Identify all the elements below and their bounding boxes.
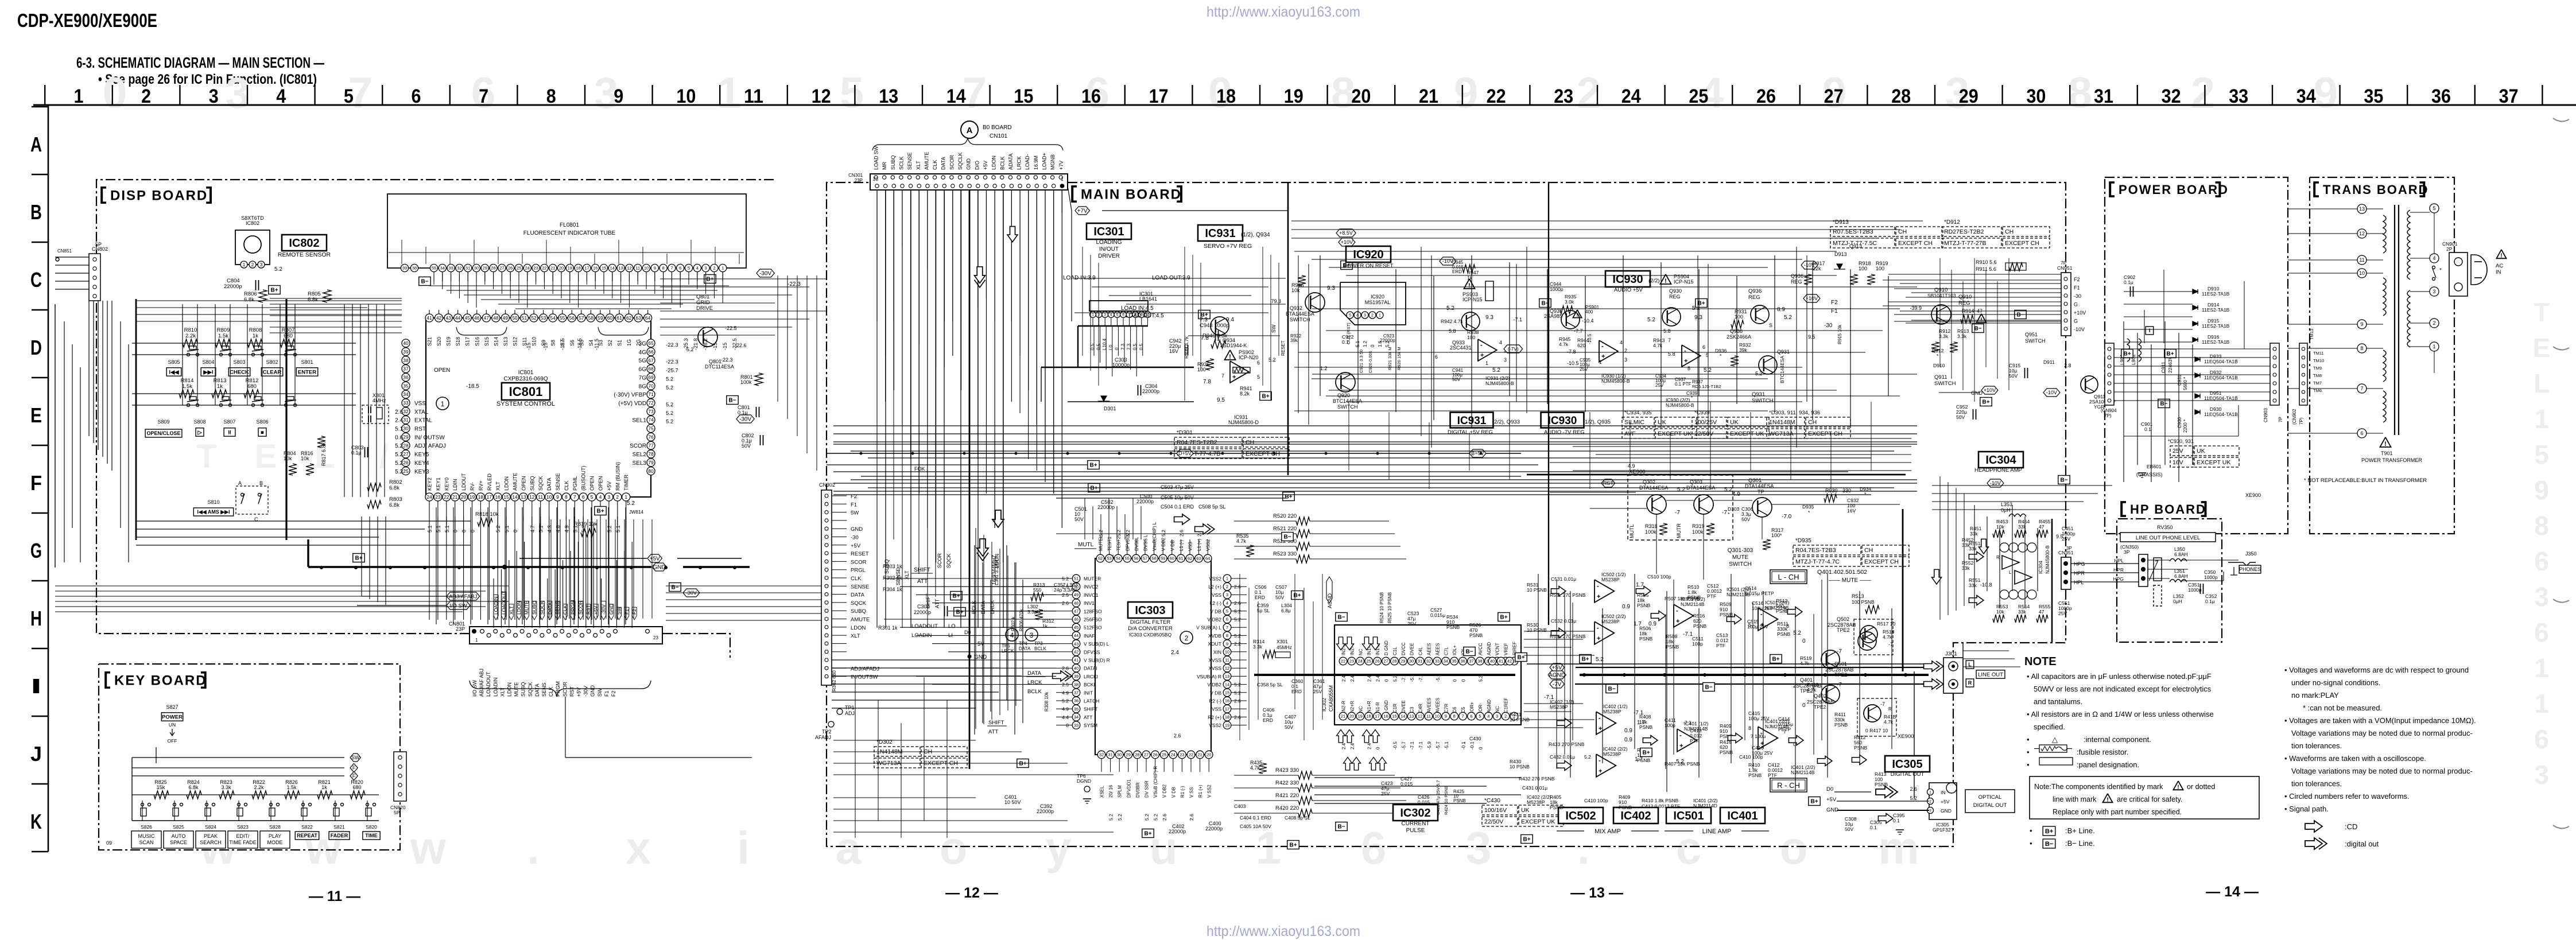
svg-text:•: • — [2027, 748, 2030, 756]
svg-text:2200 *: 2200 * — [2183, 419, 2188, 433]
svg-text:40: 40 — [403, 340, 409, 346]
svg-text:Q502: Q502 — [1837, 616, 1849, 622]
svg-text:MS1957AL: MS1957AL — [1365, 300, 1391, 305]
svg-text:9: 9 — [654, 266, 656, 271]
svg-text:29: 29 — [1959, 86, 1978, 107]
POWER BOARD outline — [2105, 177, 2288, 534]
svg-text:8: 8 — [2534, 511, 2549, 541]
svg-text:+10V: +10V — [1806, 296, 1818, 301]
svg-text:XE900: XE900 — [1898, 733, 1914, 740]
svg-text:FOK: FOK — [914, 466, 925, 472]
svg-text:1.7: 1.7 — [1636, 582, 1644, 588]
svg-text:TM7: TM7 — [2313, 380, 2322, 386]
svg-text:SYSM: SYSM — [1084, 723, 1097, 728]
svg-text:256FSO: 256FSO — [1084, 617, 1102, 623]
svg-text:SEL3: SEL3 — [633, 460, 647, 467]
svg-text:28: 28 — [1135, 752, 1139, 758]
svg-text:48: 48 — [1074, 600, 1078, 605]
svg-text:V DB2: V DB2 — [1207, 617, 1221, 623]
signal arrows amp rows — [1551, 586, 1566, 596]
svg-text:D/A CONVERTER: D/A CONVERTER — [1128, 626, 1173, 632]
svg-text:5: 5 — [591, 494, 593, 500]
svg-text:B+: B+ — [1523, 837, 1530, 843]
svg-text:B+: B+ — [952, 593, 960, 600]
svg-text:8: 8 — [1226, 633, 1228, 638]
svg-text:-7.1: -7.1 — [1418, 741, 1423, 749]
svg-text:8.9: 8.9 — [1777, 306, 1785, 313]
svg-text:MUTL: MUTL — [1629, 525, 1635, 539]
svg-text:IOR-: IOR- — [1478, 703, 1483, 713]
svg-text:EXCEPT CH: EXCEPT CH — [1864, 558, 1899, 565]
svg-text:SWITCH: SWITCH — [1934, 380, 1956, 387]
svg-text:EXCEPT CH: EXCEPT CH — [2005, 240, 2039, 247]
svg-text:N1+R: N1+R — [1367, 701, 1372, 713]
svg-text:SPACE: SPACE — [170, 840, 187, 845]
svg-text:13: 13 — [618, 266, 623, 271]
svg-text:16: 16 — [495, 494, 501, 500]
svg-text:1.5k: 1.5k — [286, 784, 297, 790]
svg-text:R306 470k: R306 470k — [1019, 608, 1024, 631]
svg-text:+10V: +10V — [1341, 239, 1353, 245]
svg-text:128FSO: 128FSO — [1084, 608, 1102, 614]
svg-text:7P): 7P) — [2104, 413, 2112, 418]
svg-text:F: F — [352, 773, 356, 779]
IC303 chip body — [1095, 558, 1211, 755]
svg-text:4.9: 4.9 — [1628, 463, 1635, 469]
svg-text:R302 k: R302 k — [1011, 616, 1016, 631]
hp area verticals 2 — [1974, 505, 1975, 608]
svg-text:B0 BOARD: B0 BOARD — [983, 125, 1012, 131]
svg-text:11EQ504-TA1B: 11EQ504-TA1B — [2204, 411, 2238, 417]
svg-text:23: 23 — [1554, 86, 1573, 107]
svg-text:0: 0 — [1370, 344, 1375, 347]
svg-text:B+: B+ — [1144, 831, 1151, 837]
svg-text:CXA8055M: CXA8055M — [1328, 685, 1334, 712]
svg-text:5.2: 5.2 — [1117, 814, 1123, 821]
svg-text:6.8k: 6.8k — [389, 485, 399, 491]
long horizontal bus wires disp to main — [55, 585, 509, 586]
svg-text:3: 3 — [1226, 592, 1228, 597]
svg-text:18: 18 — [478, 494, 484, 500]
svg-text:1k: 1k — [253, 333, 258, 339]
svg-text:POWER ON RESET: POWER ON RESET — [1343, 263, 1393, 269]
svg-text:HPL: HPL — [2114, 558, 2124, 564]
svg-text:R: R — [1996, 555, 2000, 560]
svg-text:-10.5: -10.5 — [1587, 333, 1592, 344]
svg-text:6: 6 — [2534, 724, 2549, 754]
svg-text:2: 2 — [1929, 799, 1931, 803]
svg-text:C510 100p: C510 100p — [1647, 574, 1671, 580]
svg-text:CLK: CLK — [564, 480, 569, 491]
svg-text:DVCC: DVCC — [1401, 642, 1406, 655]
transistor Q302 — [1647, 495, 1666, 514]
svg-text:0.1: 0.1 — [2144, 426, 2151, 432]
svg-text:19: 19 — [1358, 714, 1363, 719]
svg-text:14: 14 — [512, 494, 518, 500]
svg-text:6: 6 — [1361, 822, 1387, 873]
svg-text:LOADING: LOADING — [1096, 239, 1122, 246]
svg-text:R818 10k: R818 10k — [475, 511, 499, 518]
IC301 wires — [1078, 325, 1148, 327]
svg-text:!: ! — [1577, 312, 1578, 318]
svg-text:TM10: TM10 — [2313, 358, 2324, 363]
svg-text:5: 5 — [1349, 314, 1351, 318]
svg-text:PSNB: PSNB — [1639, 724, 1652, 730]
svg-text:29: 29 — [1126, 752, 1131, 758]
connector CN820 — [394, 752, 406, 801]
svg-text:21: 21 — [452, 494, 458, 500]
svg-text:57: 57 — [579, 315, 584, 321]
svg-text:7: 7 — [1221, 373, 1224, 379]
svg-text:R407 18k PSNB: R407 18k PSNB — [1665, 761, 1700, 767]
svg-text:R523 330: R523 330 — [1273, 551, 1297, 557]
CN101 wire drops down — [876, 190, 878, 628]
svg-text:OFF: OFF — [168, 738, 177, 744]
svg-text:+8.5V: +8.5V — [1339, 230, 1353, 236]
svg-text:R362 680: R362 680 — [831, 670, 837, 692]
svg-text:9.5: 9.5 — [1808, 334, 1815, 340]
svg-text:2: 2 — [2433, 320, 2435, 326]
svg-text:R915 10k: R915 10k — [1837, 324, 1842, 344]
svg-text:GND: GND — [1941, 808, 1952, 814]
svg-text:11: 11 — [2359, 257, 2364, 263]
svg-text:LINE OUT PHONE LEVEL: LINE OUT PHONE LEVEL — [2136, 535, 2200, 541]
svg-text:49: 49 — [1074, 592, 1078, 597]
svg-text:M5238P: M5238P — [1601, 577, 1620, 582]
svg-text:10k: 10k — [301, 456, 309, 461]
svg-text:16.9M: 16.9M — [1033, 156, 1039, 170]
svg-text:0: 0 — [513, 530, 518, 533]
svg-text:5.2: 5.2 — [1478, 675, 1483, 682]
svg-text:XVSS: XVSS — [1208, 666, 1221, 671]
svg-text:2: 2 — [616, 494, 619, 500]
svg-text:2: 2 — [2191, 69, 2215, 118]
svg-text:LOAD IN:4.5: LOAD IN:4.5 — [1121, 305, 1154, 312]
svg-text:• All resistors are in Ω and 1: • All resistors are in Ω and 1/4W or les… — [2027, 710, 2214, 718]
svg-text:• Voltages are taken with a VO: • Voltages are taken with a VOM(Input im… — [2284, 716, 2476, 725]
svg-text:2.4: 2.4 — [1367, 675, 1372, 682]
svg-text:2: 2 — [141, 86, 151, 107]
svg-text:B+: B+ — [1019, 761, 1026, 767]
svg-text:31: 31 — [465, 266, 470, 271]
svg-text:C7L: C7L — [1444, 647, 1449, 655]
svg-text:SCOR: SCOR — [851, 559, 867, 565]
svg-text:100p: 100p — [1692, 641, 1703, 647]
svg-text:VSS: VSS — [1212, 706, 1221, 712]
svg-text:NC: NC — [1358, 706, 1363, 713]
svg-text:PSNB: PSNB — [1453, 798, 1466, 803]
horizontals q910 zone — [1888, 274, 2061, 275]
svg-text:1: 1 — [2534, 404, 2549, 434]
wire bundle under regulators to amps — [1550, 438, 1911, 439]
svg-text:5.2: 5.2 — [395, 469, 403, 475]
IC302 right pins — [1488, 657, 1496, 665]
svg-text:24: 24 — [525, 266, 530, 271]
svg-text:*D912: *D912 — [1944, 219, 1960, 226]
svg-text:36: 36 — [403, 374, 409, 380]
svg-text:L10.4: L10.4 — [1102, 338, 1107, 350]
svg-text:SUBQ: SUBQ — [529, 476, 535, 491]
svg-text:10k: 10k — [1996, 609, 2004, 615]
svg-text:11: 11 — [744, 86, 763, 107]
svg-text:-5.1: -5.1 — [1444, 741, 1449, 749]
disp horizontals lower — [136, 521, 471, 522]
svg-text:22000p: 22000p — [1097, 504, 1115, 510]
svg-text:3P: 3P — [2066, 546, 2072, 551]
svg-text:-: - — [1601, 343, 1604, 350]
svg-text:620: 620 — [1577, 343, 1585, 348]
svg-text:-5.7: -5.7 — [1401, 741, 1406, 749]
svg-text:-7: -7 — [1722, 510, 1727, 516]
svg-text:12: 12 — [812, 86, 831, 107]
IC402 label box — [1613, 807, 1658, 824]
svg-text:-22.3: -22.3 — [666, 342, 678, 348]
svg-text:52: 52 — [1098, 556, 1103, 561]
svg-text:S20: S20 — [436, 337, 442, 346]
svg-text:42: 42 — [1074, 650, 1078, 655]
svg-text:-0.1: -0.1 — [1470, 741, 1475, 749]
svg-text:RESET: RESET — [851, 551, 869, 557]
svg-text:21: 21 — [1197, 752, 1202, 758]
svg-text:5.2: 5.2 — [1755, 371, 1763, 376]
svg-text:S822: S822 — [301, 824, 313, 830]
arrows to J301 — [1924, 661, 1943, 671]
svg-text:*D301: *D301 — [1177, 430, 1193, 436]
svg-text:LOAD IN:3.9: LOAD IN:3.9 — [1063, 275, 1096, 281]
svg-text:24: 24 — [1358, 659, 1363, 664]
svg-text:R319: R319 — [1692, 523, 1705, 529]
svg-text:LRCKI: LRCKI — [1084, 674, 1098, 679]
svg-text:UK: UK — [1730, 419, 1739, 426]
svg-text:C503 47μ 25V: C503 47μ 25V — [1161, 484, 1194, 490]
svg-text:28: 28 — [403, 442, 409, 448]
svg-text:1000p: 1000p — [2204, 574, 2218, 580]
svg-text:4: 4 — [696, 266, 699, 271]
svg-text:SEL2: SEL2 — [633, 452, 647, 458]
svg-text:09: 09 — [106, 840, 112, 846]
svg-text:4.7k: 4.7k — [1559, 341, 1569, 347]
svg-text:Q951: Q951 — [2025, 332, 2038, 337]
svg-text:11EQ504-TA1B: 11EQ504-TA1B — [2204, 375, 2238, 380]
transistor Q931 — [1759, 356, 1777, 374]
svg-text:0: 0 — [1802, 702, 1806, 709]
svg-text:5.2: 5.2 — [395, 460, 403, 467]
svg-text:25: 25 — [403, 468, 409, 474]
svg-text:AC: AC — [2496, 263, 2503, 269]
svg-text:TIME FADE: TIME FADE — [229, 840, 257, 845]
svg-text:74: 74 — [648, 417, 654, 423]
wire bundle key matrix rows — [132, 343, 356, 344]
svg-text:http://www.xiaoyu163.com: http://www.xiaoyu163.com — [1206, 923, 1360, 939]
svg-text:NOTE: NOTE — [2024, 655, 2057, 668]
svg-text:22000p: 22000p — [224, 283, 242, 290]
svg-text:H: H — [30, 607, 42, 630]
svg-text:6: 6 — [1702, 344, 1705, 350]
svg-text:• Circled numbers refer to wav: • Circled numbers refer to waveforms. — [2284, 792, 2410, 801]
svg-text:5.2: 5.2 — [395, 443, 403, 449]
svg-text:NJM2114B: NJM2114B — [1681, 601, 1705, 607]
svg-text:68: 68 — [648, 366, 654, 372]
svg-text:77: 77 — [648, 442, 654, 448]
svg-text:V SUB(A) L: V SUB(A) L — [1196, 625, 1221, 631]
svg-text:BTC144ESA: BTC144ESA — [1333, 398, 1362, 404]
svg-text:5.2: 5.2 — [274, 266, 282, 273]
svg-text:2.4: 2.4 — [1350, 743, 1355, 749]
IC801 top pin row 41-64 — [425, 314, 433, 322]
svg-text:KEY3: KEY3 — [414, 469, 429, 475]
svg-text:DIGITAL +5V REG: DIGITAL +5V REG — [1448, 429, 1493, 436]
svg-text:0.6: 0.6 — [395, 434, 403, 441]
thick lines to J301 — [1527, 663, 1937, 665]
svg-text:o: o — [1780, 822, 1808, 873]
wire horizontals into ic303 left pins — [884, 578, 1056, 579]
svg-text:KEY1: KEY1 — [435, 477, 441, 491]
svg-text:17: 17 — [1375, 714, 1379, 719]
svg-text:6G: 6G — [639, 367, 647, 373]
connector CN801 23P — [470, 627, 662, 644]
svg-text:PGML: PGML — [572, 476, 578, 491]
extra disp horizontals — [136, 300, 402, 301]
svg-text:C930: C930 — [2177, 417, 2182, 428]
thick gnd bus vertical — [285, 299, 287, 540]
svg-text:under no-signal conditions.: under no-signal conditions. — [2291, 678, 2380, 687]
fusible resistor symbol in note — [2039, 745, 2067, 752]
svg-text:LINE AMP: LINE AMP — [1702, 828, 1732, 835]
fusible resistor symbol servo — [1233, 367, 1250, 373]
svg-text:14: 14 — [1400, 714, 1405, 719]
svg-text:TM9: TM9 — [2313, 366, 2322, 371]
svg-text:-7: -7 — [1837, 682, 1842, 688]
svg-text:26: 26 — [1153, 752, 1157, 758]
svg-text:PTF: PTF — [1768, 772, 1777, 778]
svg-text:0μH: 0μH — [2173, 599, 2182, 604]
svg-text:ADATA: ADATA — [1008, 153, 1014, 170]
svg-text:AEES: AEES — [1435, 643, 1440, 655]
svg-text:7P: 7P — [2061, 260, 2067, 266]
svg-text:9: 9 — [2534, 475, 2549, 505]
tube pin row — [430, 264, 437, 271]
arrows upper near cn101 — [975, 267, 986, 288]
svg-text:LDON: LDON — [991, 156, 997, 170]
svg-text:C412 0.0012 PTF: C412 0.0012 PTF — [1642, 803, 1680, 809]
svg-text:F1: F1 — [1831, 308, 1838, 314]
svg-text:3: 3 — [1624, 357, 1627, 363]
key board left rail — [131, 758, 133, 821]
warning PS902 — [1225, 350, 1236, 360]
svg-text:• Waveforms are taken with a o: • Waveforms are taken with a oscilloscop… — [2284, 754, 2426, 763]
svg-text:22463V: 22463V — [2167, 356, 2173, 373]
IC931 servo label row refs — [1336, 229, 1356, 237]
svg-text:T: T — [196, 438, 216, 475]
svg-text:y: y — [1046, 822, 1072, 873]
svg-text:DVEE: DVEE — [1401, 700, 1406, 713]
svg-text:B−: B− — [1974, 326, 1981, 332]
svg-text:SYSTEM CONTROL: SYSTEM CONTROL — [496, 401, 555, 407]
svg-text:GND: GND — [851, 526, 863, 533]
svg-text:-15: -15 — [543, 343, 549, 350]
svg-text:S824: S824 — [205, 824, 216, 830]
svg-text:S1: S1 — [617, 340, 623, 346]
svg-text:!: ! — [1229, 354, 1231, 360]
wire bundle ic302 to amps — [1524, 631, 1595, 632]
svg-text:DATA: DATA — [851, 592, 865, 599]
svg-text:2: 2 — [713, 266, 715, 271]
svg-text:VSuB (CHIP) R: VSuB (CHIP) R — [1153, 766, 1158, 798]
svg-text:V SUB(D) R: V SUB(D) R — [1084, 658, 1110, 663]
svg-text:59: 59 — [598, 315, 603, 321]
svg-text:KEY2: KEY2 — [427, 477, 433, 491]
svg-text:S19: S19 — [446, 337, 452, 346]
svg-text:11ES2-TA1B: 11ES2-TA1B — [2202, 339, 2230, 345]
svg-text:L353: L353 — [2001, 502, 2012, 507]
svg-text:22: 22 — [542, 266, 546, 271]
svg-text:S4: S4 — [588, 340, 594, 346]
svg-text:42: 42 — [436, 315, 442, 321]
svg-text:IC801: IC801 — [518, 370, 534, 376]
svg-text:15: 15 — [1392, 714, 1396, 719]
svg-text:DATA: DATA — [941, 157, 946, 170]
svg-text:-21.8: -21.8 — [693, 338, 699, 350]
svg-text:AVEES: AVEES — [1427, 698, 1432, 713]
svg-text:25V: 25V — [1407, 621, 1416, 627]
svg-text:4: 4 — [1620, 340, 1623, 345]
svg-text::internal component.: :internal component. — [2084, 735, 2151, 744]
svg-text:Q401.402.501.502: Q401.402.501.502 — [1817, 569, 1867, 576]
svg-text:SILMIC: SILMIC — [1624, 419, 1644, 426]
svg-text:1.2: 1.2 — [1320, 366, 1328, 371]
svg-text:23: 23 — [1349, 659, 1354, 664]
IC302 label box — [1393, 805, 1438, 821]
svg-text:VREF: VREF — [1504, 643, 1509, 655]
svg-text:• All capacitors are in μF unl: • All capacitors are in μF unless otherw… — [2027, 672, 2212, 681]
svg-text:3: 3 — [1364, 314, 1366, 318]
svg-text:I/O SW: I/O SW — [449, 603, 467, 609]
svg-text:PRGL: PRGL — [851, 568, 866, 574]
svg-text:IC802: IC802 — [246, 220, 259, 226]
svg-text:D913: D913 — [1834, 251, 1847, 257]
svg-text:R420 220: R420 220 — [1275, 805, 1299, 811]
svg-text:L1 (+): L1 (+) — [1197, 539, 1202, 551]
svg-text:-15: -15 — [526, 343, 532, 350]
svg-text:2: 2 — [1098, 313, 1100, 317]
svg-text:INVO1: INVO1 — [1084, 592, 1099, 598]
svg-text:IN/ OUTSW: IN/ OUTSW — [414, 434, 445, 441]
svg-text:-22.5: -22.5 — [725, 325, 737, 331]
svg-text:10 50V: 10 50V — [1004, 799, 1021, 805]
svg-text:GND: GND — [966, 158, 972, 170]
svg-text:12: 12 — [627, 266, 631, 271]
table C930 931 — [2170, 446, 2193, 456]
svg-text:B+: B+ — [270, 288, 278, 294]
svg-text:MGNB: MGNB — [1050, 154, 1056, 170]
svg-text:6: 6 — [2534, 617, 2549, 647]
svg-text:47: 47 — [1074, 609, 1078, 614]
svg-text:C5: C5 — [1461, 706, 1466, 713]
svg-text:C931: C931 — [2177, 374, 2182, 386]
svg-text:UK: UK — [1521, 807, 1530, 814]
heavy rails top mid — [1287, 182, 1289, 475]
svg-text:R819 10k: R819 10k — [574, 521, 598, 527]
svg-text:50: 50 — [512, 315, 518, 321]
svg-text:2.4: 2.4 — [1350, 675, 1355, 682]
svg-text:F2: F2 — [611, 690, 616, 697]
svg-text:5.2: 5.2 — [1584, 754, 1591, 760]
svg-text:N2+R: N2+R — [1349, 701, 1355, 713]
svg-text:19: 19 — [470, 494, 475, 500]
optical digital out connector — [1929, 783, 1957, 819]
svg-text:35: 35 — [1074, 706, 1078, 712]
fluorescent tube box FL801 — [387, 194, 746, 268]
